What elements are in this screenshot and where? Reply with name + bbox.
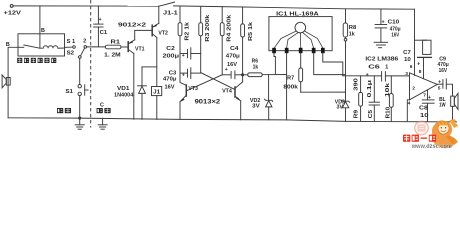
relay coil bbox=[40, 46, 65, 48]
svg-text:VD1: VD1 bbox=[117, 86, 130, 92]
capacitor C10 bbox=[375, 9, 387, 42]
svg-text:1N4004: 1N4004 bbox=[114, 92, 133, 98]
svg-text:1k: 1k bbox=[349, 32, 355, 38]
resistor R9 bbox=[359, 76, 363, 121]
resistor R6 bbox=[243, 73, 287, 77]
wire pushbutton to bottom rail bbox=[79, 96, 81, 118]
svg-text:VT1: VT1 bbox=[135, 47, 145, 53]
svg-text:+: + bbox=[382, 19, 385, 25]
wire terminal 2 to R1 bbox=[87, 46, 106, 48]
svg-text:5: 5 bbox=[438, 86, 441, 92]
wire J1 to rail bbox=[156, 96, 158, 120]
svg-text:1k: 1k bbox=[253, 64, 259, 70]
svg-text:800k: 800k bbox=[283, 84, 298, 90]
resistor R3 bbox=[199, 6, 203, 72]
diode VD3 zener bbox=[341, 100, 349, 121]
svg-text:LM386: LM386 bbox=[377, 56, 398, 62]
resistor R7 bbox=[299, 68, 303, 92]
node S2 bbox=[79, 56, 82, 59]
wire pin5 to C6 and LM386 input bbox=[343, 75, 381, 77]
svg-text:16V: 16V bbox=[391, 32, 399, 38]
wire pin4 LM386 to rail bbox=[407, 100, 409, 121]
relay coil J1 box bbox=[152, 87, 162, 96]
pushbutton S1 bbox=[78, 85, 81, 88]
diode VD1 bbox=[138, 67, 147, 119]
svg-text:+12V: +12V bbox=[4, 11, 22, 17]
svg-text:VT3: VT3 bbox=[188, 86, 198, 92]
svg-text:3V: 3V bbox=[337, 105, 344, 111]
svg-text:C2: C2 bbox=[166, 46, 175, 52]
resistor R1 bbox=[105, 45, 121, 49]
wire dashed separator bbox=[90, 0, 92, 128]
text CJK ground label right bbox=[97, 108, 111, 113]
svg-text:4: 4 bbox=[408, 101, 411, 107]
wire VD1 tie bbox=[142, 66, 157, 68]
svg-text:16V: 16V bbox=[165, 84, 175, 90]
capacitor C3 bbox=[180, 68, 201, 79]
capacitor C6 bbox=[382, 72, 410, 81]
svg-text:6: 6 bbox=[410, 64, 413, 70]
svg-text:IC1 HL-169A: IC1 HL-169A bbox=[276, 11, 319, 17]
svg-text:C10: C10 bbox=[388, 20, 400, 26]
svg-text:+: + bbox=[99, 17, 102, 23]
svg-text:B: B bbox=[6, 42, 10, 48]
op-amp IC2 LM386 triangle bbox=[410, 73, 438, 100]
svg-text:J1-1: J1-1 bbox=[163, 11, 178, 17]
svg-text:+: + bbox=[428, 95, 431, 101]
IC1 fan wires bbox=[274, 31, 323, 48]
wire pin1 to R6 node bbox=[274, 53, 275, 75]
svg-text:470μ: 470μ bbox=[226, 54, 240, 60]
wire S2 down to pushbutton bbox=[79, 58, 81, 84]
wire node A column bbox=[180, 54, 186, 86]
svg-text:R10: R10 bbox=[385, 107, 391, 119]
transistor VT4 bbox=[235, 82, 243, 101]
svg-text:R9: R9 bbox=[353, 110, 359, 119]
svg-text:R5 1k: R5 1k bbox=[248, 22, 254, 41]
svg-text:J1: J1 bbox=[153, 89, 160, 95]
svg-text:+: + bbox=[182, 73, 185, 79]
svg-text:2: 2 bbox=[412, 86, 415, 92]
svg-text:R3 200k: R3 200k bbox=[205, 15, 211, 42]
svg-text:C8: C8 bbox=[419, 106, 428, 112]
node C4-R5 junction bbox=[242, 74, 244, 76]
relay contact bbox=[18, 46, 24, 48]
ground symbol C10 bbox=[374, 42, 387, 47]
diode VD2 zener bbox=[265, 99, 273, 120]
svg-text:0.1μ: 0.1μ bbox=[367, 80, 373, 98]
svg-text:1W: 1W bbox=[439, 103, 446, 109]
wire VT1 collector down to rail bbox=[133, 53, 135, 119]
wire VT4 emitter to rail bbox=[240, 101, 242, 120]
svg-text:1. 2M: 1. 2M bbox=[104, 52, 121, 58]
capacitor C5 bbox=[369, 76, 379, 121]
resistor R4 bbox=[220, 7, 224, 75]
svg-text:3: 3 bbox=[405, 71, 408, 77]
resistor R8 bbox=[343, 9, 347, 39]
svg-text:R8: R8 bbox=[349, 25, 357, 31]
svg-text:16V: 16V bbox=[227, 62, 237, 68]
transistor VT1 bbox=[128, 40, 135, 54]
node +12V terminal bbox=[10, 5, 13, 8]
wire pin2 to rail bbox=[286, 53, 288, 120]
svg-text:10k: 10k bbox=[385, 83, 391, 97]
IC1 pin pads bbox=[272, 48, 325, 53]
svg-text:R1: R1 bbox=[111, 39, 121, 45]
svg-text:1: 1 bbox=[385, 64, 388, 70]
capacitor C9 bbox=[437, 79, 452, 96]
capacitor C4 bbox=[222, 71, 242, 79]
wire B to horn bbox=[8, 47, 18, 118]
svg-text:16V: 16V bbox=[439, 68, 448, 74]
svg-text:+: + bbox=[225, 67, 228, 73]
wire VT2 collector to J1 coil bbox=[156, 38, 158, 87]
wire VT3 emitter to rail bbox=[179, 102, 181, 120]
node R8 terminal circle bbox=[344, 38, 347, 41]
svg-text:10: 10 bbox=[420, 113, 429, 119]
node 2 bbox=[84, 46, 87, 49]
watermark text bbox=[403, 135, 452, 150]
capacitor C8 bbox=[422, 100, 434, 122]
wire cross diagonal 1 bbox=[201, 73, 235, 90]
text CJK relay label bbox=[17, 58, 56, 63]
wire pin3 to R7 bbox=[300, 53, 302, 68]
wire VT2 emitter to J1-1 bbox=[158, 6, 160, 23]
resistor R5 bbox=[241, 7, 245, 82]
node S1 bbox=[73, 46, 76, 49]
speaker horn bbox=[6, 78, 10, 86]
speaker BL bbox=[451, 93, 458, 122]
wire VT1 emitter up to VT2 base bbox=[135, 30, 152, 39]
capacitor C1 bbox=[94, 6, 103, 47]
wire top rail left segment bbox=[13, 5, 158, 7]
switch arm 2-S2 bbox=[81, 48, 85, 56]
ground symbol left bbox=[75, 118, 84, 129]
ground symbol C terminal bbox=[98, 118, 107, 129]
wire pin5 path bbox=[323, 53, 343, 76]
svg-text:9012×2: 9012×2 bbox=[118, 22, 146, 28]
switch J1-1 bbox=[159, 2, 175, 6]
wire R7 to VD3 node bbox=[301, 91, 346, 93]
svg-text:+: + bbox=[438, 79, 441, 85]
svg-text:VT4: VT4 bbox=[222, 89, 232, 95]
node junction dot bbox=[79, 117, 81, 119]
wire B drop from rail into relay box bbox=[39, 6, 41, 48]
svg-text:VT2: VT2 bbox=[158, 30, 168, 36]
svg-text:470μ: 470μ bbox=[163, 77, 177, 83]
svg-text:R4 200k: R4 200k bbox=[226, 15, 232, 42]
watermark logo bbox=[415, 119, 458, 148]
svg-text:C1: C1 bbox=[100, 30, 108, 36]
wire pin7 to C8 bbox=[427, 90, 429, 100]
wire pin4 path bbox=[314, 53, 346, 75]
wire cross diagonal 2 bbox=[187, 75, 222, 91]
svg-text:200μ: 200μ bbox=[163, 54, 180, 60]
svg-text:C7: C7 bbox=[403, 50, 411, 56]
svg-text:S1: S1 bbox=[65, 89, 73, 95]
wire bottom rail bbox=[8, 118, 456, 122]
svg-text:7: 7 bbox=[423, 93, 426, 99]
text CJK ground label left bbox=[57, 108, 71, 113]
wire top rail right segment bbox=[174, 6, 415, 9]
svg-text:IC2: IC2 bbox=[365, 56, 375, 62]
svg-text:R7: R7 bbox=[287, 76, 294, 82]
svg-text:C4: C4 bbox=[230, 46, 239, 52]
svg-text:+: + bbox=[417, 61, 420, 67]
relay box bbox=[18, 34, 65, 56]
svg-text:R2 1k: R2 1k bbox=[185, 22, 191, 41]
wire V+ drop pin6 bbox=[414, 9, 416, 75]
svg-text:www.dzsc.com: www.dzsc.com bbox=[411, 143, 452, 150]
transistor VT2 bbox=[152, 23, 159, 37]
svg-text:2: 2 bbox=[83, 38, 86, 44]
capacitor C2 bbox=[180, 48, 201, 59]
svg-text:S 1: S 1 bbox=[67, 39, 76, 45]
svg-text:C6: C6 bbox=[368, 64, 380, 70]
resistor R10 bbox=[389, 76, 393, 121]
transistor VT3 bbox=[180, 85, 186, 102]
svg-text:3V: 3V bbox=[252, 104, 260, 110]
svg-text:C5: C5 bbox=[368, 110, 374, 119]
svg-text:B: B bbox=[41, 28, 45, 34]
svg-text:+: + bbox=[366, 72, 369, 78]
svg-text:+: + bbox=[182, 53, 185, 59]
IC1 chip circle bbox=[295, 22, 306, 33]
wire VD2 branch bbox=[268, 75, 270, 101]
svg-text:9013×2: 9013×2 bbox=[195, 99, 221, 105]
svg-text:390: 390 bbox=[354, 78, 360, 91]
svg-text:C: C bbox=[100, 102, 104, 108]
capacitor C7 bbox=[415, 40, 432, 78]
resistor R2 bbox=[178, 6, 182, 54]
svg-text:10: 10 bbox=[404, 57, 411, 63]
svg-text:8: 8 bbox=[419, 69, 422, 75]
svg-text:S2: S2 bbox=[67, 51, 74, 57]
wire R8 to VD3 bbox=[345, 41, 347, 101]
IC1 box bbox=[269, 17, 332, 51]
wire relay box to S1 bbox=[65, 46, 73, 48]
